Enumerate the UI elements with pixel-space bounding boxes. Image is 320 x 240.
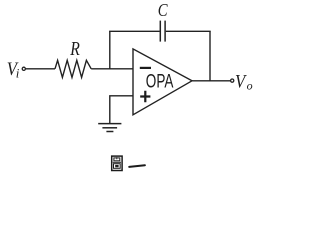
wire op-amp output to Vo terminal — [192, 80, 231, 82]
capacitor C — [160, 21, 165, 42]
svg-text:V: V — [235, 72, 247, 93]
svg-text:OPA: OPA — [146, 71, 174, 92]
op-amp U1 OPA triangle — [133, 49, 192, 115]
wire resistor to op-amp inverting input — [91, 68, 133, 70]
node Vo output terminal — [231, 79, 234, 82]
ground — [98, 124, 121, 132]
wire non-inverting input — [110, 96, 133, 124]
wire Vi terminal to resistor — [26, 68, 55, 70]
node Vi input terminal — [22, 67, 25, 70]
wire feedback tap vertical — [109, 31, 111, 69]
svg-text:o: o — [247, 78, 253, 92]
wire feedback top right — [166, 30, 211, 32]
caption 圖一 (Figure 1) — [112, 156, 145, 170]
resistor R — [55, 60, 91, 77]
pin label minus (inverting input) — [140, 67, 151, 69]
svg-text:C: C — [158, 0, 168, 20]
pin label plus (non-inverting input) — [140, 91, 150, 103]
wire feedback right vertical — [209, 31, 211, 81]
svg-text:R: R — [70, 38, 81, 60]
wire feedback top left — [109, 30, 160, 32]
svg-text:i: i — [16, 66, 20, 81]
